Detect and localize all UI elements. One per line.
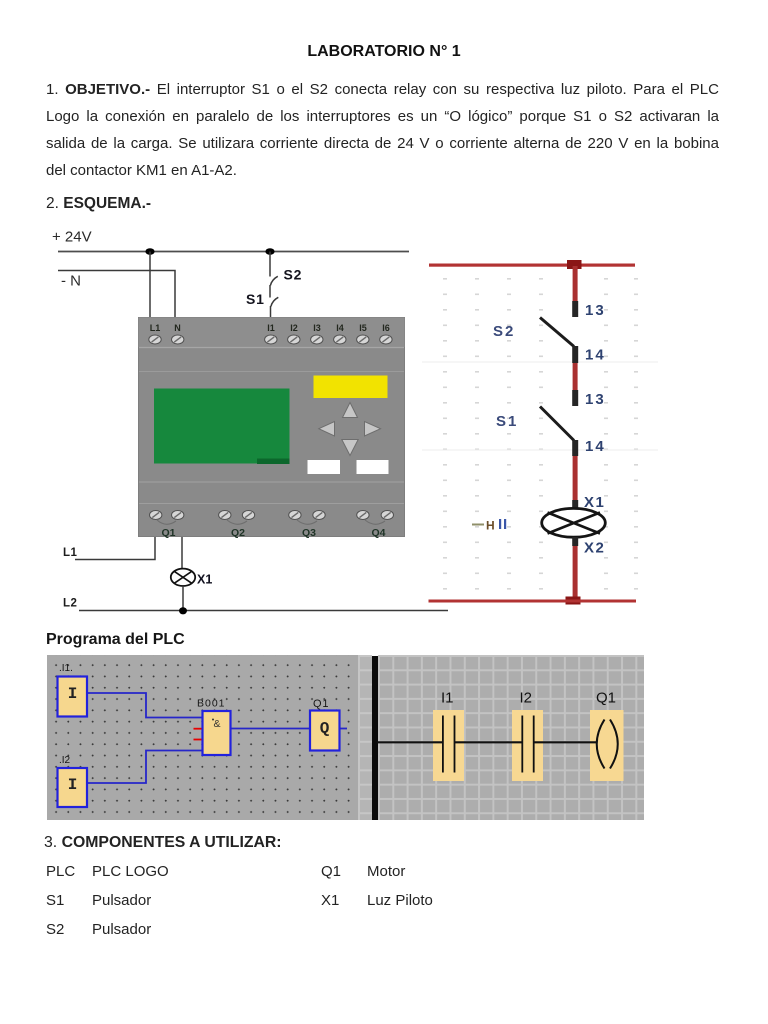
terminal tick X2 — [572, 537, 578, 546]
label 14 S2 — [585, 347, 606, 364]
label X2 — [584, 540, 605, 557]
LAD coil Q1 label — [596, 690, 616, 707]
wire between switches — [269, 285, 271, 298]
switch S2 blade — [270, 276, 277, 285]
PLC terminal labels top — [150, 323, 390, 333]
block Q1 output — [310, 711, 340, 751]
switch S1 label — [246, 291, 265, 307]
wire L1 hook — [75, 537, 155, 560]
label 14 S1 — [585, 438, 606, 455]
LAD coil Q1 — [590, 710, 624, 781]
node junction dot A — [145, 248, 154, 255]
wire L2 rail — [79, 610, 448, 612]
node -N label — [61, 273, 81, 290]
LAD contact I1 — [433, 710, 464, 781]
terminal tick 13 (S2) — [572, 301, 578, 317]
block I2 label — [59, 755, 71, 766]
wire I2 to B001 — [87, 751, 202, 784]
heading ESQUEMA — [46, 195, 151, 213]
wire I1 riser lower — [270, 306, 272, 321]
block B001 label — [197, 698, 226, 710]
PLC terminal screws top — [149, 335, 392, 344]
wire Q1 stub — [339, 728, 347, 730]
block I2 — [58, 768, 88, 807]
title — [0, 43, 768, 61]
switch S1 blade — [271, 297, 278, 306]
terminal tick X1 — [572, 500, 578, 509]
grid strip — [358, 655, 372, 820]
B001 open input pins — [194, 729, 202, 740]
node junction top — [567, 260, 582, 269]
wire Q1 to lamp — [181, 537, 183, 569]
wire +24V rail — [58, 251, 409, 253]
power rail top — [429, 264, 635, 267]
svg-text:&: & — [213, 718, 220, 730]
wire red riser segment 1 — [573, 266, 578, 301]
LAD rung wire segments — [377, 741, 598, 743]
svg-text:Q1: Q1 — [596, 690, 616, 707]
PLC white keys — [308, 460, 389, 474]
svg-text:.I1.: .I1. — [59, 663, 73, 674]
node junction dot B — [265, 248, 274, 255]
lamp H symbol — [542, 508, 606, 537]
PLC output labels — [161, 527, 385, 539]
PLC yellow label — [314, 376, 388, 399]
wire B001 to Q1 — [231, 728, 310, 730]
node L1 label — [63, 547, 78, 559]
terminal tick 13 (S1) — [572, 390, 578, 406]
svg-text:Q: Q — [320, 720, 330, 738]
PLC LOGO module body — [139, 318, 405, 537]
block B001 AND gate — [203, 711, 231, 755]
PLC LCD screen — [154, 389, 290, 465]
terminal tick 14 (S1) — [572, 440, 578, 456]
wire I1 riser upper — [269, 252, 271, 277]
svg-text:I2: I2 — [520, 690, 533, 707]
PLC arrow keypad — [319, 403, 381, 456]
label X1 — [584, 494, 605, 511]
components table — [46, 863, 75, 880]
wire L1 drop — [149, 252, 151, 321]
node +24V label — [52, 229, 92, 246]
node junction bottom — [566, 597, 581, 605]
power rail bottom — [429, 600, 637, 603]
wire red riser segment 2 — [573, 363, 578, 390]
switch S2 label — [493, 323, 515, 340]
svg-text:I1: I1 — [441, 690, 454, 707]
switch S1 label — [496, 413, 518, 430]
lamp X1 label — [197, 573, 212, 587]
PLC relay contact ticks — [157, 520, 385, 524]
LAD contact I2 label — [520, 690, 533, 707]
switch S2 label — [284, 267, 303, 283]
heading Programa del PLC — [46, 631, 185, 649]
LAD panel background — [378, 655, 645, 820]
block Q1 label — [313, 698, 329, 710]
svg-text:I: I — [68, 685, 78, 703]
wire red riser segment 3 — [573, 456, 578, 500]
block I1 — [58, 677, 88, 717]
divider bar — [372, 656, 378, 820]
heading COMPONENTES — [44, 834, 282, 852]
lamp H label — [472, 519, 506, 533]
wire lamp to L2 — [182, 586, 184, 610]
wire I1 to B001 — [87, 693, 202, 718]
wire N rail — [58, 271, 175, 321]
block I1 label — [59, 663, 73, 674]
FBD panel background — [47, 655, 359, 820]
svg-text:B001: B001 — [197, 698, 226, 710]
node junction dot L2 — [179, 607, 187, 614]
lamp X1 — [171, 569, 195, 586]
label 13 S1 — [585, 391, 606, 408]
node L2 label — [63, 598, 77, 610]
wire red riser segment 4 — [573, 546, 578, 598]
PLC terminal screws bottom — [150, 511, 394, 520]
LAD contact I2 — [512, 710, 543, 781]
terminal tick 14 (S2) — [572, 346, 578, 363]
switch S1 blade — [540, 407, 574, 441]
label 13 S2 — [585, 302, 606, 319]
svg-text:I: I — [68, 776, 78, 794]
switch S2 blade — [540, 318, 574, 347]
LAD contact I1 label — [441, 690, 454, 707]
svg-text:Q1: Q1 — [313, 698, 329, 710]
svg-text:.I2: .I2 — [59, 755, 71, 766]
paragraph OBJETIVO — [46, 82, 719, 97]
